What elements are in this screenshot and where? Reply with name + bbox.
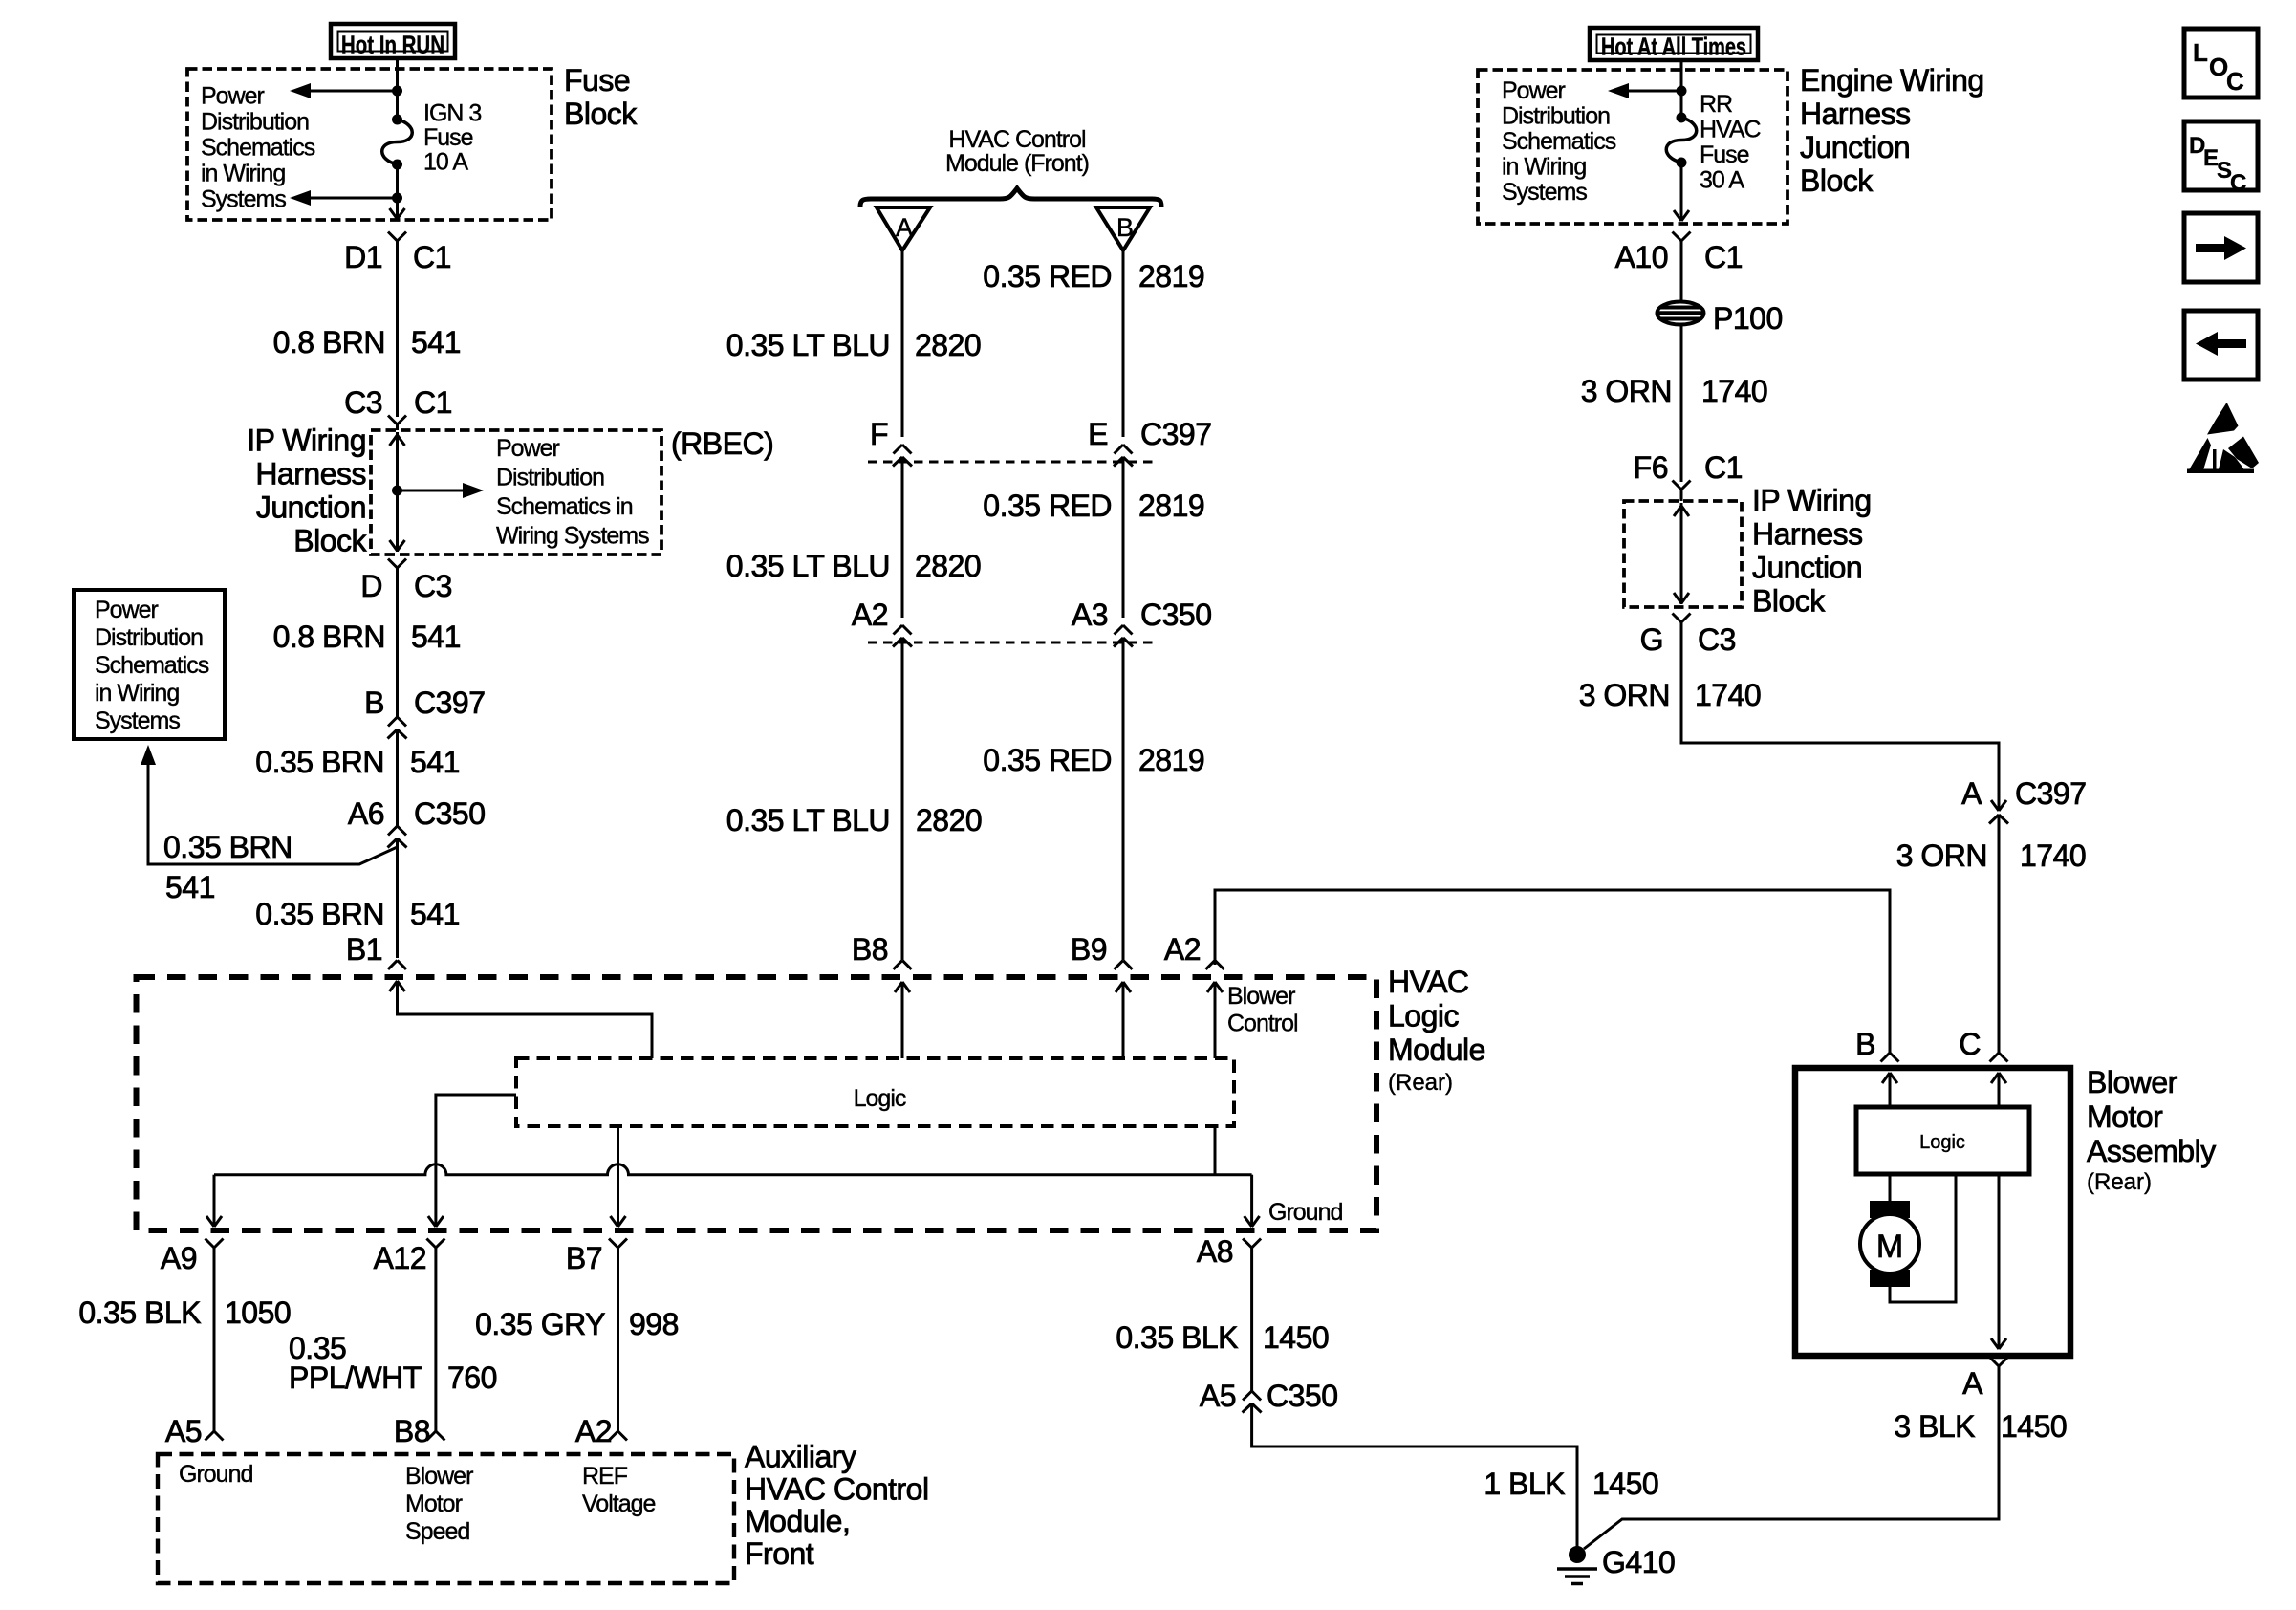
svg-text:C350: C350 bbox=[414, 796, 486, 831]
svg-text:(Rear): (Rear) bbox=[1388, 1070, 1453, 1096]
svg-text:Fuse: Fuse bbox=[423, 124, 473, 151]
svg-text:Power: Power bbox=[201, 83, 265, 110]
svg-text:541: 541 bbox=[165, 870, 215, 904]
svg-text:B7: B7 bbox=[566, 1241, 602, 1275]
svg-text:Module: Module bbox=[1388, 1033, 1485, 1067]
svg-text:Control: Control bbox=[1227, 1011, 1298, 1037]
svg-text:Junction: Junction bbox=[1800, 130, 1910, 164]
svg-text:B: B bbox=[1855, 1027, 1875, 1061]
svg-text:A2: A2 bbox=[852, 598, 888, 632]
svg-text:0.35 LT BLU: 0.35 LT BLU bbox=[726, 803, 890, 838]
svg-text:B8: B8 bbox=[394, 1414, 430, 1448]
svg-text:2820: 2820 bbox=[916, 803, 982, 838]
svg-text:A9: A9 bbox=[161, 1241, 197, 1275]
svg-text:Logic: Logic bbox=[854, 1085, 906, 1112]
svg-text:760: 760 bbox=[447, 1360, 497, 1395]
svg-text:Block: Block bbox=[564, 97, 638, 131]
svg-text:A5: A5 bbox=[1200, 1379, 1236, 1413]
svg-text:A: A bbox=[1961, 776, 1982, 811]
svg-text:C: C bbox=[2226, 67, 2244, 96]
svg-text:in Wiring: in Wiring bbox=[1502, 154, 1586, 181]
svg-text:0.35 BRN: 0.35 BRN bbox=[255, 745, 384, 779]
svg-text:Junction: Junction bbox=[1752, 551, 1862, 585]
svg-text:Wiring Systems: Wiring Systems bbox=[496, 523, 649, 550]
svg-text:Block: Block bbox=[293, 524, 367, 558]
svg-text:Systems: Systems bbox=[201, 186, 286, 213]
svg-text:1740: 1740 bbox=[1701, 374, 1767, 408]
svg-text:IP Wiring: IP Wiring bbox=[1752, 484, 1872, 518]
svg-text:Fuse: Fuse bbox=[564, 63, 630, 98]
svg-text:IP Wiring: IP Wiring bbox=[247, 424, 366, 458]
svg-text:Distribution: Distribution bbox=[496, 465, 604, 491]
svg-text:0.35 RED: 0.35 RED bbox=[983, 259, 1112, 294]
svg-text:2819: 2819 bbox=[1138, 743, 1204, 777]
svg-text:Power: Power bbox=[496, 435, 560, 462]
svg-text:Schematics: Schematics bbox=[201, 135, 315, 162]
svg-text:B1: B1 bbox=[346, 932, 382, 967]
svg-text:Blower: Blower bbox=[2087, 1065, 2178, 1099]
svg-text:0.35 LT BLU: 0.35 LT BLU bbox=[726, 328, 890, 362]
svg-text:C350: C350 bbox=[1140, 598, 1212, 632]
svg-text:A3: A3 bbox=[1072, 598, 1108, 632]
svg-text:Fuse: Fuse bbox=[1700, 141, 1749, 168]
svg-text:3 ORN: 3 ORN bbox=[1896, 838, 1987, 873]
svg-text:L: L bbox=[2193, 38, 2208, 67]
svg-text:A12: A12 bbox=[374, 1241, 426, 1275]
svg-text:3 BLK: 3 BLK bbox=[1894, 1409, 1975, 1444]
svg-text:Module (Front): Module (Front) bbox=[945, 150, 1089, 177]
svg-text:Distribution: Distribution bbox=[95, 624, 203, 651]
svg-text:0.35 LT BLU: 0.35 LT BLU bbox=[726, 549, 890, 583]
svg-text:10 A: 10 A bbox=[423, 149, 468, 176]
svg-text:F: F bbox=[870, 417, 888, 451]
svg-text:Logic: Logic bbox=[1919, 1132, 1965, 1153]
svg-text:Distribution: Distribution bbox=[1502, 103, 1610, 130]
svg-text:A2: A2 bbox=[1164, 932, 1201, 967]
svg-text:Motor: Motor bbox=[2087, 1099, 2163, 1134]
svg-text:Motor: Motor bbox=[405, 1490, 463, 1517]
svg-text:A2: A2 bbox=[575, 1414, 612, 1448]
svg-text:0.35 RED: 0.35 RED bbox=[983, 489, 1112, 523]
svg-text:C: C bbox=[2230, 170, 2246, 196]
svg-text:541: 541 bbox=[410, 745, 460, 779]
svg-text:HVAC: HVAC bbox=[1388, 965, 1469, 999]
svg-text:1740: 1740 bbox=[1695, 678, 1761, 712]
svg-text:A6: A6 bbox=[348, 796, 384, 831]
svg-text:B8: B8 bbox=[852, 932, 888, 967]
svg-text:Systems: Systems bbox=[95, 707, 180, 734]
svg-text:0.8 BRN: 0.8 BRN bbox=[273, 620, 385, 654]
svg-text:C1: C1 bbox=[1704, 240, 1743, 274]
svg-text:Blower: Blower bbox=[405, 1463, 473, 1490]
svg-text:C397: C397 bbox=[2015, 776, 2087, 811]
svg-text:Schematics in: Schematics in bbox=[496, 493, 633, 520]
svg-text:3 ORN: 3 ORN bbox=[1579, 678, 1670, 712]
svg-text:in Wiring: in Wiring bbox=[95, 680, 179, 707]
svg-text:1050: 1050 bbox=[225, 1295, 291, 1330]
svg-text:Junction: Junction bbox=[256, 490, 366, 525]
svg-text:Ground: Ground bbox=[1268, 1199, 1342, 1226]
svg-text:C3: C3 bbox=[414, 569, 452, 603]
svg-text:3 ORN: 3 ORN bbox=[1581, 374, 1672, 408]
svg-text:D1: D1 bbox=[344, 240, 382, 274]
svg-text:1450: 1450 bbox=[1592, 1467, 1658, 1501]
svg-text:2820: 2820 bbox=[915, 328, 981, 362]
svg-text:B: B bbox=[364, 685, 384, 720]
svg-text:0.35 BLK: 0.35 BLK bbox=[78, 1295, 201, 1330]
svg-text:HVAC Control: HVAC Control bbox=[948, 126, 1085, 153]
svg-text:Distribution: Distribution bbox=[201, 109, 309, 136]
svg-text:Voltage: Voltage bbox=[582, 1490, 656, 1517]
svg-text:A8: A8 bbox=[1197, 1234, 1233, 1269]
svg-text:30 A: 30 A bbox=[1700, 167, 1744, 194]
svg-text:541: 541 bbox=[411, 325, 461, 359]
svg-text:B: B bbox=[1116, 213, 1134, 242]
svg-text:B9: B9 bbox=[1071, 932, 1107, 967]
svg-text:2820: 2820 bbox=[915, 549, 981, 583]
svg-text:C: C bbox=[1959, 1027, 1981, 1061]
svg-text:C1: C1 bbox=[1704, 450, 1743, 485]
svg-text:Harness: Harness bbox=[255, 457, 366, 491]
svg-text:1 BLK: 1 BLK bbox=[1484, 1467, 1565, 1501]
svg-text:(RBEC): (RBEC) bbox=[671, 426, 773, 461]
svg-text:Module,: Module, bbox=[745, 1504, 850, 1538]
svg-text:2819: 2819 bbox=[1138, 259, 1204, 294]
svg-text:Systems: Systems bbox=[1502, 179, 1587, 206]
svg-text:PPL/WHT: PPL/WHT bbox=[289, 1360, 422, 1395]
svg-text:C397: C397 bbox=[1140, 417, 1212, 451]
svg-text:Logic: Logic bbox=[1388, 999, 1460, 1033]
svg-text:0.35 BLK: 0.35 BLK bbox=[1116, 1320, 1238, 1355]
svg-text:E: E bbox=[1088, 417, 1108, 451]
svg-text:Schematics: Schematics bbox=[1502, 128, 1616, 155]
svg-text:Front: Front bbox=[745, 1536, 814, 1571]
svg-text:0.35 BRN: 0.35 BRN bbox=[163, 830, 292, 864]
svg-text:(Rear): (Rear) bbox=[2087, 1169, 2152, 1195]
svg-text:Harness: Harness bbox=[1752, 517, 1863, 552]
svg-text:2819: 2819 bbox=[1138, 489, 1204, 523]
svg-text:C3: C3 bbox=[344, 385, 382, 420]
svg-text:C3: C3 bbox=[1698, 622, 1736, 657]
svg-text:C1: C1 bbox=[413, 240, 451, 274]
svg-text:P100: P100 bbox=[1713, 301, 1783, 336]
svg-text:998: 998 bbox=[629, 1307, 679, 1341]
svg-text:Blower: Blower bbox=[1227, 983, 1295, 1010]
svg-text:Hot In RUN: Hot In RUN bbox=[341, 31, 444, 59]
svg-text:A10: A10 bbox=[1615, 240, 1668, 274]
svg-text:1740: 1740 bbox=[2020, 838, 2086, 873]
svg-text:Block: Block bbox=[1800, 163, 1874, 198]
svg-text:A5: A5 bbox=[165, 1414, 202, 1448]
svg-text:1450: 1450 bbox=[1263, 1320, 1329, 1355]
svg-text:G410: G410 bbox=[1602, 1545, 1675, 1579]
svg-text:0.35 BRN: 0.35 BRN bbox=[255, 897, 384, 931]
svg-text:Ground: Ground bbox=[179, 1461, 252, 1488]
svg-text:HVAC: HVAC bbox=[1700, 117, 1762, 143]
svg-text:Power: Power bbox=[95, 597, 159, 623]
svg-text:0.35 GRY: 0.35 GRY bbox=[475, 1307, 605, 1341]
svg-text:C350: C350 bbox=[1267, 1379, 1338, 1413]
svg-text:C1: C1 bbox=[414, 385, 452, 420]
svg-text:Speed: Speed bbox=[405, 1518, 469, 1545]
svg-text:Hot At All Times: Hot At All Times bbox=[1601, 33, 1746, 61]
svg-text:541: 541 bbox=[410, 897, 460, 931]
svg-text:REF: REF bbox=[582, 1463, 628, 1490]
svg-text:D: D bbox=[360, 569, 382, 603]
svg-text:Engine Wiring: Engine Wiring bbox=[1800, 63, 1984, 98]
svg-text:RR: RR bbox=[1700, 91, 1732, 118]
svg-text:HVAC Control: HVAC Control bbox=[745, 1471, 929, 1506]
svg-text:0.8 BRN: 0.8 BRN bbox=[273, 325, 385, 359]
svg-text:0.35 RED: 0.35 RED bbox=[983, 743, 1112, 777]
svg-text:G: G bbox=[1640, 622, 1663, 657]
svg-text:C397: C397 bbox=[414, 685, 486, 720]
svg-text:Assembly: Assembly bbox=[2087, 1134, 2216, 1168]
svg-text:Schematics: Schematics bbox=[95, 652, 209, 679]
svg-text:in Wiring: in Wiring bbox=[201, 161, 285, 187]
svg-text:A: A bbox=[1962, 1366, 1983, 1401]
svg-text:F6: F6 bbox=[1634, 450, 1668, 485]
svg-text:M: M bbox=[1876, 1229, 1903, 1265]
svg-text:Auxiliary: Auxiliary bbox=[745, 1440, 856, 1474]
svg-text:1450: 1450 bbox=[2001, 1409, 2067, 1444]
svg-text:541: 541 bbox=[411, 620, 461, 654]
svg-text:Block: Block bbox=[1752, 584, 1826, 619]
svg-text:IGN 3: IGN 3 bbox=[423, 100, 481, 127]
svg-text:Harness: Harness bbox=[1800, 97, 1911, 131]
svg-text:Power: Power bbox=[1502, 77, 1566, 104]
svg-text:A: A bbox=[896, 213, 913, 242]
